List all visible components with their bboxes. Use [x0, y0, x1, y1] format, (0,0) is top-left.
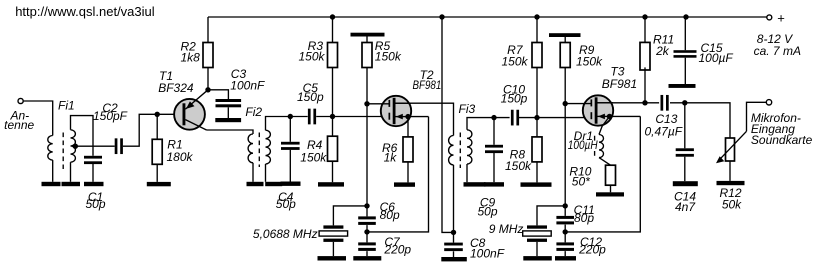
- node rail R7: [534, 14, 539, 19]
- node C9 junction: [491, 115, 496, 120]
- svg-text:Fi1: Fi1: [58, 99, 75, 113]
- transistor T1 (PNP BF324): [174, 90, 208, 130]
- svg-text:220p: 220p: [383, 243, 411, 257]
- wire C4 to ground: [289, 150, 291, 182]
- wire T3 source to feedback corner: [610, 115, 641, 117]
- crystal Q2 9 MHz: [523, 225, 552, 242]
- svg-text:50k: 50k: [722, 198, 742, 212]
- resistor R3: [328, 43, 338, 68]
- ground C12: [555, 256, 576, 260]
- label URL http://www.qsl.net/va3iul: [15, 4, 155, 19]
- wire Fi2 primary to ground: [252, 163, 254, 182]
- wire supply bar to R5: [366, 37, 368, 43]
- node T3 gate2 / R9: [563, 101, 568, 106]
- label R5 150k: [375, 39, 402, 63]
- wire C5 to T2 gate 1: [316, 116, 389, 118]
- capacitor C10: [511, 110, 519, 126]
- wire T2 gate2 lead: [367, 103, 389, 105]
- node T2 source / R6: [405, 114, 410, 119]
- node rail / C8 feed: [439, 14, 444, 19]
- inductor Fi3 primary winding: [449, 136, 454, 165]
- wire +V supply rail: [208, 16, 767, 18]
- core Fi1: [62, 133, 64, 170]
- wire T2 gate2 to crystal node: [366, 104, 368, 206]
- label Fi3: [459, 102, 476, 116]
- node crystal Q1 / C6: [364, 203, 369, 208]
- svg-text:50p: 50p: [276, 197, 296, 211]
- label Dr1 100uH: [568, 129, 598, 152]
- label Fi1: [58, 99, 75, 113]
- inductor Fi3 secondary winding: [467, 130, 472, 164]
- svg-text:180k: 180k: [167, 150, 194, 164]
- wire Fi3 secondary to ground: [466, 164, 468, 182]
- svg-text:50p: 50p: [85, 197, 105, 211]
- svg-text:Fi3: Fi3: [459, 102, 476, 116]
- svg-text:BF981: BF981: [413, 78, 442, 92]
- svg-text:4n7: 4n7: [675, 200, 696, 214]
- node T1 emitter / R2 / C3: [205, 87, 210, 92]
- node R3 R4 C5: [330, 114, 335, 119]
- svg-text:http://www.qsl.net/va3iul: http://www.qsl.net/va3iul: [15, 4, 155, 19]
- svg-text:150k: 150k: [505, 159, 532, 173]
- wire C6/C7 node to T2 source: [367, 117, 429, 232]
- node rail R11: [642, 14, 647, 19]
- wire C6 to C7 node: [366, 225, 368, 232]
- wire Fi1 tap to C2: [75, 145, 114, 147]
- capacitor C11: [556, 216, 574, 225]
- resistor R4: [328, 136, 338, 161]
- ground crystal Q2: [523, 256, 552, 260]
- ground C14: [673, 181, 698, 186]
- label C12 220p: [578, 235, 606, 257]
- wire node to C4: [289, 117, 291, 142]
- wire node to crystal Q2: [537, 206, 565, 226]
- svg-text:Fi2: Fi2: [245, 105, 262, 119]
- wire emitter node to C3: [208, 90, 228, 99]
- ground Fi2 secondary: [265, 182, 282, 186]
- wire node to C9: [493, 118, 495, 145]
- capacitor C6: [358, 216, 376, 225]
- node C11 C12 source feedback: [563, 229, 568, 234]
- inductor Fi1 secondary winding: [71, 130, 76, 162]
- wire C10 to T3 gate 1: [518, 117, 591, 119]
- label C15 100uF: [699, 41, 734, 65]
- ground Fi2 primary: [247, 182, 264, 186]
- wire node to C8: [453, 232, 455, 242]
- +V supply terminal: [767, 15, 772, 20]
- capacitor C13: [661, 95, 669, 111]
- node C4 junction: [288, 114, 293, 119]
- label Mikrofon-Eingang Soundkarte: [751, 111, 813, 147]
- wire R1 stubs: [156, 114, 158, 182]
- label R11 2k: [653, 32, 674, 58]
- node R7 R8 C10: [534, 115, 539, 120]
- wire R9 to T3 gate 2 node: [564, 68, 566, 104]
- capacitor C4: [281, 142, 300, 150]
- inductor Dr1 choke: [599, 135, 604, 158]
- svg-text:100µF: 100µF: [699, 51, 734, 65]
- svg-text:ca. 7 mA: ca. 7 mA: [754, 44, 801, 58]
- wire C11 to C12 node: [564, 225, 566, 232]
- node crystal Q2 / C11: [563, 203, 568, 208]
- inductor Fi1 primary winding: [48, 136, 53, 161]
- wire Fi1 primary to ground: [52, 160, 54, 182]
- svg-text:Soundkarte: Soundkarte: [751, 133, 813, 147]
- svg-text:150pF: 150pF: [93, 109, 128, 123]
- wire node to R8: [536, 118, 538, 183]
- wire output terminal: [747, 102, 767, 131]
- svg-text:100µH: 100µH: [568, 138, 598, 152]
- wire C13 to output node: [670, 103, 730, 138]
- label C8 100nF: [470, 236, 505, 261]
- ground C7: [353, 256, 381, 260]
- wire C9 to ground: [493, 153, 495, 182]
- resistor R8: [532, 137, 542, 162]
- wire crystal Q1 to ground: [332, 242, 334, 256]
- ground C4: [281, 182, 301, 186]
- label T2 BF981: [413, 68, 442, 92]
- node Fi3 primary / C8: [451, 230, 456, 235]
- ground C9: [484, 182, 504, 186]
- resistor R2: [203, 43, 213, 68]
- wire rail to R11: [644, 17, 646, 42]
- svg-text:BF981: BF981: [602, 77, 637, 91]
- svg-text:150k: 150k: [375, 49, 402, 63]
- ground Fi3 secondary: [464, 182, 486, 186]
- capacitor C12: [556, 242, 574, 251]
- wire crystal Q2 to ground: [536, 242, 538, 256]
- label C2 150pF: [93, 101, 128, 123]
- wire rail to R2: [207, 17, 209, 43]
- node drain / R11: [642, 100, 647, 105]
- transistor T3 (MOSFET BF981): [583, 95, 613, 125]
- svg-text:100nF: 100nF: [470, 247, 505, 261]
- inductor Fi2 primary winding: [248, 134, 253, 163]
- wire R11 to drain: [644, 67, 646, 102]
- capacitor C7: [358, 242, 376, 251]
- label R12 50k: [719, 186, 742, 212]
- supply bar R9: [549, 33, 581, 37]
- capacitor C2: [115, 138, 123, 154]
- svg-text:150k: 150k: [298, 49, 325, 63]
- wire C1 to ground: [92, 164, 94, 182]
- label C11 80p: [574, 203, 595, 225]
- wire C11/C12 node to T3 source: [565, 116, 640, 231]
- wire rail to R7: [536, 17, 538, 43]
- node C6 C7 source feedback: [364, 229, 369, 234]
- wire T3 gate2 lead: [565, 103, 590, 105]
- svg-text:50*: 50*: [572, 174, 590, 188]
- label C3 100nF: [230, 67, 265, 92]
- resistor R11: [640, 42, 650, 70]
- capacitor C3: [216, 99, 242, 107]
- ground R10: [596, 192, 624, 196]
- label C9 50p: [477, 195, 497, 218]
- wire Fi2 secondary top to C5: [266, 117, 308, 131]
- label T3 BF981: [602, 65, 637, 92]
- capacitor C5: [308, 109, 316, 125]
- svg-text:150k: 150k: [501, 55, 528, 69]
- label Antenne: [4, 109, 34, 133]
- resistor R10: [606, 165, 616, 185]
- wire C3 to ground: [227, 107, 229, 118]
- capacitor C14: [676, 148, 694, 156]
- ground R1: [147, 182, 171, 186]
- core Fi3: [459, 133, 461, 169]
- label + supply: [777, 10, 785, 25]
- supply bar R5: [351, 33, 385, 37]
- wire R2 to emitter node: [207, 68, 209, 90]
- ground R12: [717, 181, 745, 185]
- label C5 150p: [297, 81, 324, 104]
- ground C3: [215, 118, 241, 122]
- svg-text:BF324: BF324: [158, 81, 194, 95]
- wire node to C6: [366, 206, 368, 217]
- wire source to R6: [407, 117, 409, 183]
- wire R3 to node: [332, 68, 334, 117]
- wire node to C11: [564, 206, 566, 216]
- resistor R1: [152, 139, 162, 164]
- label R6 1k: [382, 141, 398, 165]
- capacitor C15 (electrolytic): [674, 50, 697, 57]
- svg-text:220p: 220p: [578, 243, 606, 257]
- core Dr1: [594, 136, 596, 156]
- label 9 MHz: [489, 222, 524, 236]
- ground C8: [441, 257, 467, 261]
- ground C15: [669, 84, 696, 88]
- svg-text:150p: 150p: [297, 90, 324, 104]
- label Fi2: [245, 105, 262, 119]
- wire Fi1 secondary to ground: [70, 162, 72, 182]
- svg-text:150k: 150k: [576, 55, 603, 69]
- node base T1 / R1: [155, 112, 160, 117]
- label R1 180k: [167, 137, 194, 164]
- wire node to C7: [366, 232, 368, 256]
- wire node to C14: [684, 103, 686, 149]
- node T3 source / Dr1: [607, 114, 612, 119]
- inductor Fi2 secondary winding: [266, 130, 271, 164]
- node rail C15: [683, 14, 688, 19]
- ground R4: [318, 182, 344, 186]
- label R3 150k: [298, 39, 325, 63]
- label R7 150k: [501, 43, 528, 69]
- wire Fi1 secondary top to C1: [71, 116, 94, 156]
- label T1 BF324: [158, 69, 194, 95]
- label 5,0688 MHz: [253, 227, 318, 241]
- wire node to C12: [564, 232, 566, 256]
- wire R10 to ground: [610, 185, 612, 192]
- label R10 50*: [569, 164, 591, 188]
- svg-text:80p: 80p: [574, 211, 594, 225]
- ground R8: [521, 182, 552, 186]
- wire node to crystal Q1: [333, 206, 367, 226]
- wire rail to C15: [684, 17, 686, 50]
- wire C8 to ground: [453, 251, 455, 257]
- svg-text:2k: 2k: [655, 44, 670, 58]
- node Fi1 tap: [73, 144, 78, 149]
- svg-text:5,0688 MHz: 5,0688 MHz: [253, 227, 318, 241]
- wire R12 to ground: [729, 161, 731, 181]
- wire antenna to Fi1 primary: [23, 101, 53, 136]
- resistor R7: [532, 43, 542, 68]
- node C13 / C14 / R12: [682, 100, 687, 105]
- wire source to Dr1: [599, 116, 610, 134]
- resistor R5: [362, 43, 372, 68]
- ground Fi1 primary: [42, 182, 61, 186]
- crystal Q1 5,0688 MHz: [319, 225, 348, 242]
- wire T3 gate2 to crystal node: [564, 104, 566, 206]
- label C10 150p: [501, 83, 528, 106]
- svg-text:9 MHz: 9 MHz: [489, 222, 524, 236]
- wire R7 to node: [536, 68, 538, 118]
- svg-text:0,47µF: 0,47µF: [645, 124, 683, 138]
- output terminal: [766, 100, 771, 105]
- label C14 4n7: [674, 190, 696, 215]
- svg-text:+: +: [777, 10, 785, 25]
- label C13 0,47uF: [645, 112, 683, 138]
- svg-text:50p: 50p: [477, 204, 497, 218]
- ground Fi1 secondary: [62, 182, 81, 186]
- label R9 150k: [576, 43, 603, 69]
- label C6 80p: [380, 200, 400, 222]
- wire C14 to ground: [684, 157, 686, 182]
- resistor R12: [726, 138, 735, 161]
- label R4 150k: [300, 138, 327, 165]
- wire R5 to T2 gate 2 node: [366, 68, 368, 104]
- ground R6: [394, 182, 415, 186]
- svg-text:150k: 150k: [300, 151, 327, 165]
- wiper arrow R12: [716, 131, 747, 163]
- label C7 220p: [383, 235, 411, 257]
- capacitor C9: [485, 145, 503, 153]
- core Fi2: [258, 133, 260, 168]
- wire C2 to T1 base: [123, 114, 183, 146]
- svg-text:1k: 1k: [384, 151, 398, 165]
- wire supply bar to R9: [564, 37, 566, 43]
- wire Fi2 secondary to ground: [265, 164, 267, 182]
- svg-text:100nF: 100nF: [230, 79, 265, 93]
- label R8 150k: [505, 148, 532, 174]
- antenna input terminal: [18, 98, 23, 103]
- wire T2 drain to Fi3 primary: [395, 103, 453, 135]
- svg-text:1k8: 1k8: [181, 50, 201, 64]
- capacitor C8: [444, 243, 463, 251]
- svg-text:tenne: tenne: [4, 118, 34, 132]
- capacitor C1: [84, 156, 102, 164]
- label C1 50p: [85, 190, 105, 211]
- resistor R6: [403, 137, 413, 162]
- wire rail to R3: [332, 17, 334, 43]
- wire node to R4: [332, 117, 334, 183]
- svg-text:80p: 80p: [380, 208, 400, 222]
- label R2 1k8: [181, 39, 201, 64]
- resistor R9: [560, 43, 570, 68]
- label C4 50p: [276, 190, 296, 211]
- ground C1: [84, 182, 104, 186]
- wire Fi3 primary to C8 node: [453, 165, 455, 233]
- wire T3 drain to C13: [598, 102, 660, 104]
- node rail R3: [330, 14, 335, 19]
- wire Dr1 to R10: [599, 158, 611, 166]
- svg-text:150p: 150p: [501, 91, 528, 105]
- wire T2 source to feedback corner: [408, 116, 429, 118]
- transistor T2 (MOSFET BF981): [381, 96, 411, 126]
- wire T1 collector to Fi2 primary: [207, 130, 254, 134]
- ground crystal Q1: [318, 256, 347, 260]
- wire rail down to C8 node: [442, 17, 454, 232]
- label 8-12 V ca. 7 mA: [754, 32, 801, 58]
- wire Fi3 secondary top to C10: [467, 118, 510, 130]
- wire C15 to ground: [684, 58, 686, 84]
- node T2 gate2 / R5: [364, 101, 369, 106]
